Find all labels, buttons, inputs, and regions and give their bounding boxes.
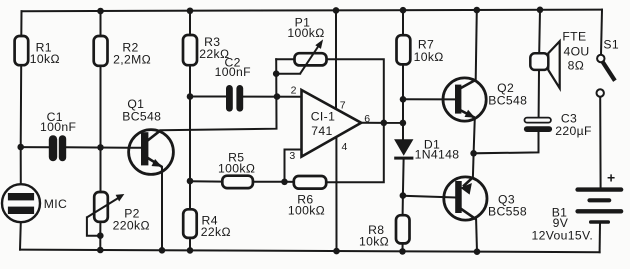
wire op-amp output pin 6 (361, 122, 403, 124)
potentiometer P1 wiper arrow (300, 41, 322, 74)
wire Q3 emitter up to output node (472, 153, 475, 177)
svg-text:12Vou15V.: 12Vou15V. (531, 229, 593, 243)
svg-text:2,2MΩ: 2,2MΩ (113, 52, 151, 66)
svg-text:100kΩ: 100kΩ (287, 26, 325, 40)
svg-text:100kΩ: 100kΩ (288, 203, 326, 217)
potentiometer P2 wiper arrow (87, 195, 123, 218)
wire battery minus to ground rail (599, 224, 601, 253)
resistor R1 (15, 36, 29, 65)
resistor R8 (396, 215, 410, 243)
resistor R4 (183, 209, 197, 238)
svg-text:6: 6 (364, 113, 370, 125)
wire C2 line to pin 2 (190, 96, 302, 98)
wire R6 leads (285, 181, 294, 183)
wire P2 wiper tie (87, 217, 100, 235)
svg-text:741: 741 (311, 124, 332, 138)
wire op-amp pin 4 to V- (335, 139, 337, 252)
svg-text:100nF: 100nF (215, 65, 251, 79)
svg-text:CI-1: CI-1 (311, 110, 335, 124)
svg-text:BC558: BC558 (488, 205, 527, 219)
wire top rail (22, 10, 603, 12)
svg-text:FTE: FTE (562, 30, 586, 44)
svg-text:10kΩ: 10kΩ (359, 235, 389, 249)
resistor R2 (94, 36, 108, 66)
wire Q2 collector to V+ (476, 10, 477, 80)
diode D1 1N4148 (394, 140, 413, 160)
svg-text:4OU: 4OU (563, 45, 589, 59)
capacitor C3 electrolytic (524, 118, 552, 132)
capacitor C2 (226, 85, 243, 112)
svg-text:3: 3 (289, 150, 295, 162)
wire output node to C3 (474, 132, 539, 153)
wire op-amp pin 3 (285, 150, 302, 182)
svg-text:4: 4 (341, 141, 347, 153)
speaker FTE (530, 41, 559, 88)
wire speaker top (538, 10, 541, 53)
transistor Q2 (443, 78, 486, 121)
wire op-amp pin 7 to V+ (335, 10, 337, 107)
wire P1 right lead to feedback column (326, 59, 383, 182)
svg-text:BC548: BC548 (122, 109, 161, 123)
wire bottom rail (20, 250, 600, 253)
wire C1 node line (21, 146, 142, 149)
wire P1 left lead (276, 58, 294, 60)
capacitor C1 (49, 135, 66, 161)
potentiometer P1 body (295, 53, 327, 65)
wire S1 to battery (599, 97, 601, 188)
wire Q3 collector to ground (475, 219, 478, 251)
svg-text:22kΩ: 22kΩ (201, 225, 231, 239)
resistor R5 (222, 176, 253, 188)
op-amp U1 CI-1 741 (302, 90, 362, 157)
transistor Q3 (PNP) (444, 177, 487, 220)
svg-text:+: + (607, 170, 616, 186)
wire S1 from V+ rail (601, 10, 602, 55)
svg-text:MIC: MIC (44, 197, 67, 211)
svg-text:S1: S1 (603, 37, 619, 51)
svg-text:100kΩ: 100kΩ (218, 162, 256, 176)
svg-text:220kΩ: 220kΩ (113, 218, 151, 232)
transistor Q1 (129, 130, 174, 175)
wire Q2 base (403, 98, 455, 100)
wire Q2 emitter down to output node (474, 118, 475, 154)
svg-text:1N4148: 1N4148 (415, 148, 460, 162)
svg-text:100nF: 100nF (40, 120, 76, 134)
svg-text:220µF: 220µF (555, 124, 592, 138)
switch S1 (597, 55, 615, 97)
svg-text:BC548: BC548 (488, 94, 527, 108)
wire Q1 emitter to ground (161, 167, 163, 250)
potentiometer P2 body (94, 192, 108, 222)
resistor R3 (183, 35, 197, 65)
battery B1 (575, 187, 623, 223)
resistor R6 (294, 176, 326, 189)
wire speaker bottom to C3 (538, 70, 540, 118)
wire R5 leads (190, 180, 285, 183)
svg-text:7: 7 (340, 99, 346, 111)
wire Q3 base (403, 196, 455, 198)
wire R3/R4 column (189, 11, 191, 251)
wire P1 wiper tie (276, 73, 300, 75)
wire R2/P2 column (99, 11, 101, 250)
svg-text:8Ω: 8Ω (568, 59, 585, 73)
svg-text:2: 2 (291, 84, 297, 96)
wire Q1 collector to pin2 node (161, 59, 277, 130)
microphone MIC (2, 184, 40, 222)
wire R7/D1/R8 column (403, 10, 404, 251)
resistor R7 (397, 35, 411, 64)
wire left column R1/C1/MIC (20, 11, 22, 249)
svg-text:10kΩ: 10kΩ (30, 52, 60, 66)
svg-text:10kΩ: 10kΩ (414, 50, 444, 64)
